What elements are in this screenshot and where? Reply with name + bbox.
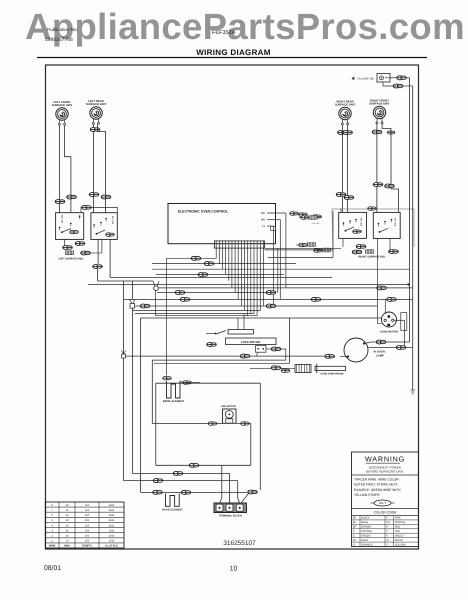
- svg-text:PURPLE: PURPLE: [395, 521, 406, 524]
- svg-text:TERMINAL BLOCK: TERMINAL BLOCK: [219, 514, 242, 517]
- svg-text:TAN: TAN: [395, 530, 400, 533]
- svg-text:BK: BK: [261, 211, 265, 215]
- svg-text:YELLOW: YELLOW: [395, 543, 406, 546]
- svg-text:GRAY: GRAY: [361, 539, 368, 542]
- svg-text:3321: 3321: [109, 509, 115, 512]
- svg-text:Y: Y: [386, 543, 388, 546]
- svg-text:VIOLET: VIOLET: [395, 534, 405, 537]
- svg-text:BL: BL: [353, 521, 357, 524]
- svg-text:SURFACE UNIT: SURFACE UNIT: [369, 103, 390, 106]
- svg-text:FEF352A: FEF352A: [212, 30, 236, 36]
- svg-text:BEFORE SERVICING UNIT.: BEFORE SERVICING UNIT.: [366, 470, 404, 474]
- svg-text:PINK: PINK: [395, 517, 401, 520]
- svg-text:GREEN: GREEN: [361, 534, 370, 537]
- svg-text:★: ★: [351, 76, 356, 82]
- svg-text:3321: 3321: [109, 504, 115, 507]
- svg-text:3321: 3321: [109, 524, 115, 527]
- svg-text:105: 105: [85, 540, 90, 543]
- svg-text:Publication No.: Publication No.: [47, 27, 78, 32]
- svg-text:BR: BR: [261, 218, 265, 222]
- svg-text:08/01: 08/01: [44, 565, 61, 572]
- svg-text:YELLOW STRIPE.: YELLOW STRIPE.: [354, 493, 381, 497]
- svg-text:LOCK MOTOR: LOCK MOTOR: [241, 340, 260, 344]
- svg-text:ELECTRONIC OVEN CONTROL: ELECTRONIC OVEN CONTROL: [178, 210, 228, 214]
- svg-text:WARNING: WARNING: [365, 455, 405, 464]
- svg-text:FAN MOTOR: FAN MOTOR: [221, 405, 236, 408]
- svg-text:OVEN TEMP PROBE: OVEN TEMP PROBE: [320, 373, 344, 376]
- svg-text:RED: RED: [395, 526, 401, 529]
- svg-text:NOTED FIRST, STRIPE NEXT.: NOTED FIRST, STRIPE NEXT.: [354, 483, 398, 487]
- svg-text:5995357766: 5995357766: [45, 37, 73, 43]
- svg-text:AppliancePartsPros.com: AppliancePartsPros.com: [25, 6, 465, 47]
- svg-text:AWG: AWG: [64, 545, 70, 548]
- svg-text:R: R: [386, 526, 388, 529]
- svg-text:10: 10: [230, 566, 238, 573]
- svg-text:TRACER WIRE: WIRE COLOR: TRACER WIRE: WIRE COLOR: [354, 478, 399, 482]
- svg-text:150: 150: [85, 514, 90, 517]
- svg-text:BROIL ELEMENT: BROIL ELEMENT: [163, 400, 185, 403]
- svg-text:TEMP°C: TEMP°C: [82, 545, 92, 548]
- svg-text:BK: BK: [353, 517, 357, 520]
- svg-text:O: O: [353, 543, 355, 546]
- svg-text:G: G: [353, 534, 355, 537]
- svg-text:BR: BR: [353, 526, 357, 529]
- svg-text:LEFT SURFACE IND.: LEFT SURFACE IND.: [58, 258, 84, 261]
- svg-text:150: 150: [85, 504, 90, 507]
- svg-text:BLUE: BLUE: [361, 521, 368, 524]
- svg-text:150: 150: [85, 509, 90, 512]
- svg-text:UL STYLE: UL STYLE: [105, 545, 118, 548]
- svg-text:L1: L1: [262, 224, 266, 228]
- svg-text:316255107: 316255107: [223, 540, 256, 547]
- svg-text:COPPER: COPPER: [361, 530, 372, 533]
- svg-text:105: 105: [85, 534, 90, 537]
- svg-text:SURFACE UNIT: SURFACE UNIT: [335, 104, 356, 107]
- svg-text:GN-Y: GN-Y: [379, 501, 387, 505]
- svg-text:LAMP: LAMP: [376, 354, 384, 358]
- svg-text:BROWN: BROWN: [361, 526, 371, 529]
- svg-text:CONV MOTOR: CONV MOTOR: [380, 331, 398, 334]
- svg-text:ORANGE: ORANGE: [361, 543, 373, 546]
- svg-text:INF SW: INF SW: [360, 217, 363, 226]
- svg-text:INF SW: INF SW: [61, 214, 64, 223]
- svg-text:3321: 3321: [109, 519, 115, 522]
- svg-text:WIRING DIAGRAM: WIRING DIAGRAM: [196, 48, 270, 57]
- svg-text:1015: 1015: [109, 529, 115, 532]
- svg-text:1015: 1015: [109, 540, 115, 543]
- svg-text:BK-15A: BK-15A: [313, 222, 321, 225]
- svg-text:INF SW: INF SW: [112, 215, 115, 224]
- svg-text:105: 105: [85, 529, 90, 532]
- svg-text:SURFACE UNIT: SURFACE UNIT: [52, 104, 73, 107]
- svg-text:COLOR CODE: COLOR CODE: [374, 511, 398, 515]
- svg-text:C: C: [353, 530, 355, 533]
- svg-text:GY: GY: [353, 539, 357, 542]
- svg-text:PU: PU: [386, 521, 390, 524]
- svg-text:OV LAMP SW: OV LAMP SW: [358, 77, 375, 80]
- svg-text:RIGHT SURFACE IND.: RIGHT SURFACE IND.: [358, 256, 385, 259]
- svg-text:WIRE: WIRE: [49, 545, 56, 548]
- svg-text:3321: 3321: [109, 514, 115, 517]
- svg-text:1015: 1015: [109, 534, 115, 537]
- svg-text:V: V: [386, 534, 388, 537]
- svg-text:SURFACE UNIT: SURFACE UNIT: [86, 103, 107, 106]
- svg-text:150: 150: [85, 519, 90, 522]
- svg-text:EXAMPLE: GREEN WIRE WITH: EXAMPLE: GREEN WIRE WITH: [354, 488, 401, 492]
- svg-text:BAKE ELEMENT: BAKE ELEMENT: [162, 508, 183, 511]
- svg-text:P: P: [386, 517, 388, 520]
- svg-text:WHITE: WHITE: [395, 539, 404, 542]
- svg-text:BLACK: BLACK: [361, 517, 370, 520]
- svg-text:INF SW: INF SW: [394, 217, 397, 226]
- svg-text:150: 150: [85, 524, 90, 527]
